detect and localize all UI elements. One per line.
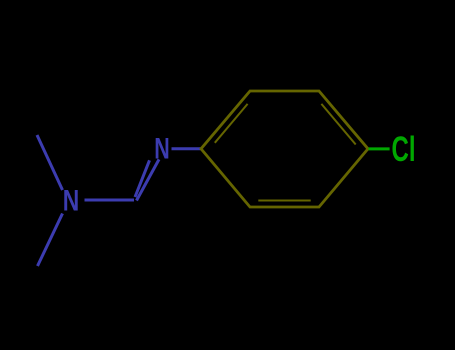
svg-text:N: N	[154, 132, 170, 165]
benzene ring outline	[201, 91, 368, 207]
methyl bond CH3 lower-left	[38, 214, 63, 267]
ring double bond inner line bottom edge	[258, 200, 310, 202]
svg-text:N: N	[63, 185, 80, 218]
bond N2-ring	[172, 147, 202, 150]
double bond C=N2 inner line	[135, 160, 150, 197]
double bond C=N2 main line	[137, 159, 160, 200]
ring double bond inner line edge L-TL	[215, 104, 248, 143]
svg-text:Cl: Cl	[392, 130, 416, 169]
methyl bond CH3 upper-left	[37, 135, 63, 190]
bond ring-Cl	[369, 147, 390, 150]
bond N1-C	[85, 199, 135, 202]
ring double bond inner line edge TR-R	[321, 104, 355, 145]
